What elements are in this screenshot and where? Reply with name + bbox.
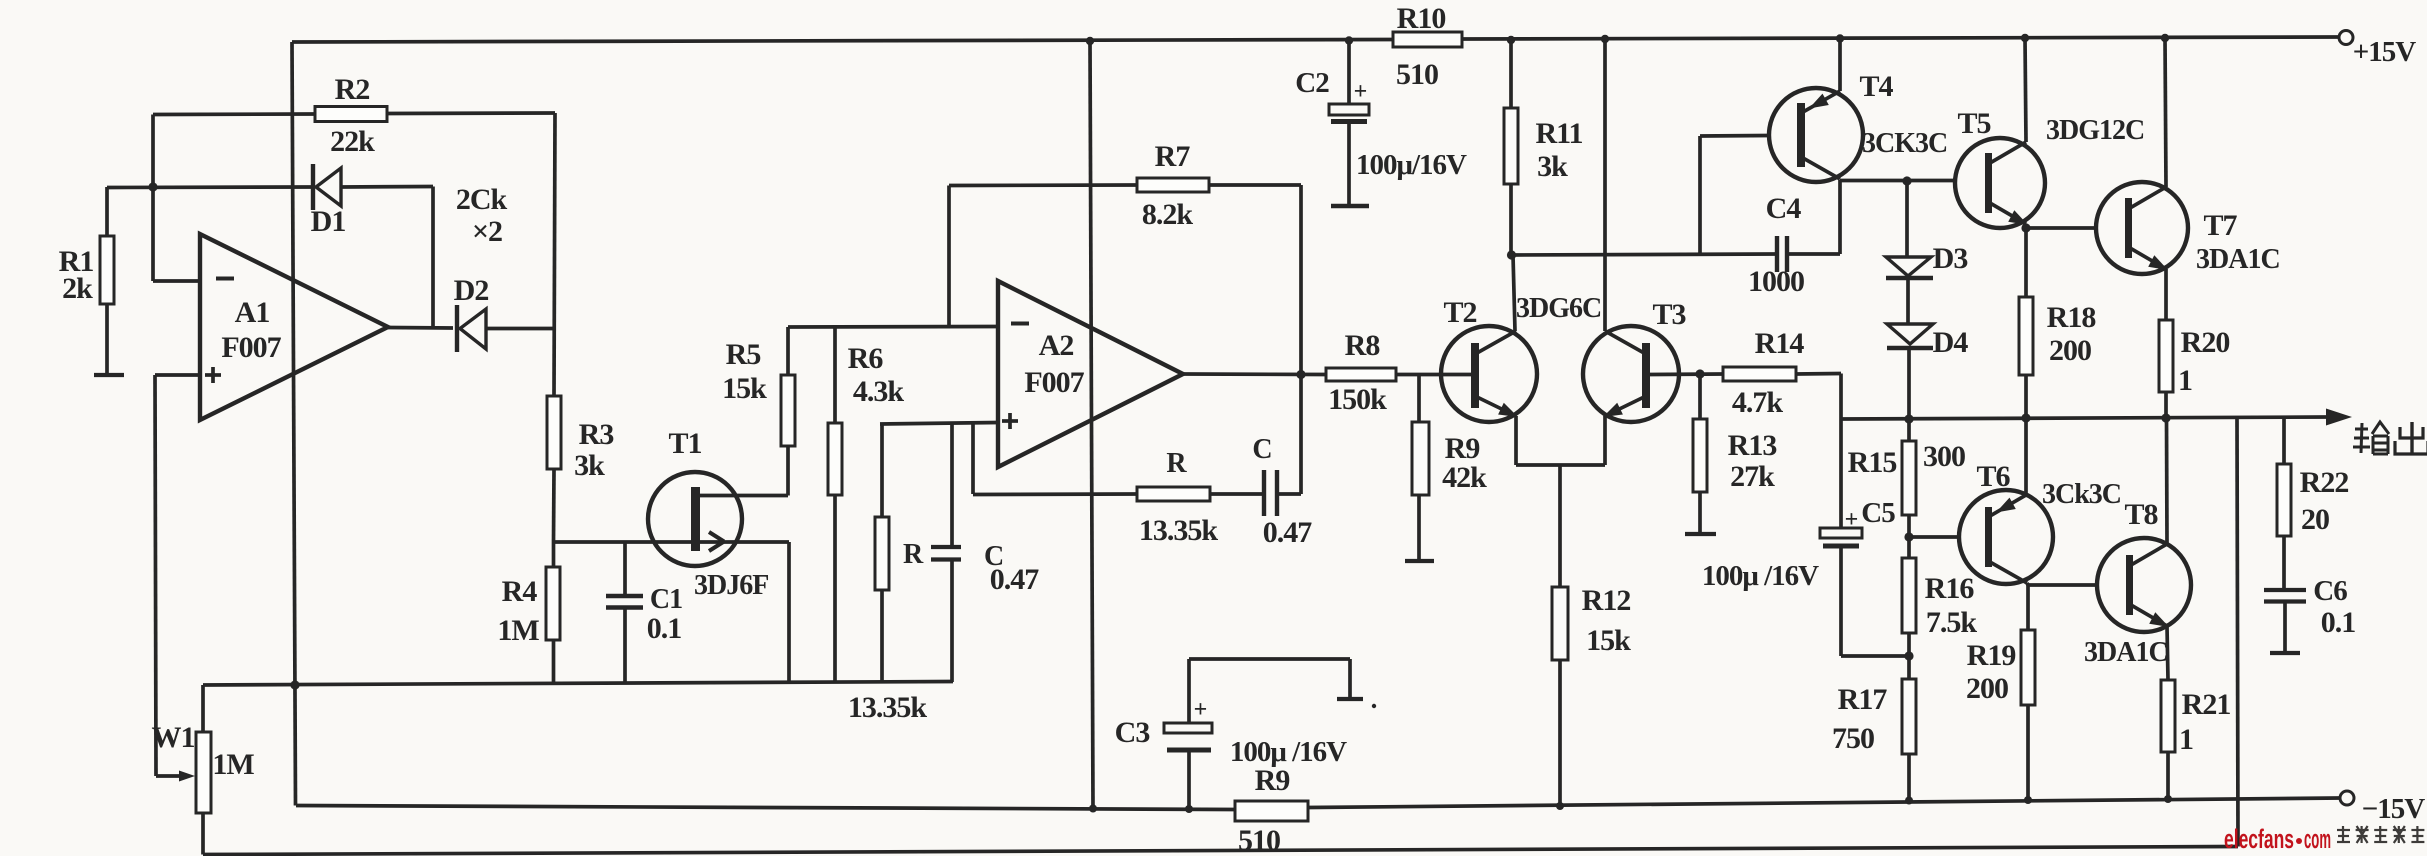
capacitor C6 xyxy=(2264,575,2355,652)
wire T3 collector xyxy=(1603,39,1607,331)
svg-text:T4: T4 xyxy=(1859,70,1893,103)
svg-text:R21: R21 xyxy=(2182,688,2231,721)
svg-text:R14: R14 xyxy=(1755,327,1805,360)
wire T7 emitter xyxy=(2164,269,2168,320)
svg-text:×2: ×2 xyxy=(472,215,502,248)
svg-text:R3: R3 xyxy=(579,418,614,451)
svg-text:T3: T3 xyxy=(1652,298,1685,331)
resistor R15 xyxy=(1848,419,1965,537)
op-amp A2 xyxy=(998,281,1183,467)
node D3 tap xyxy=(1902,176,1911,185)
svg-text:T7: T7 xyxy=(2203,209,2237,242)
svg-text:3DG12C: 3DG12C xyxy=(2046,115,2144,146)
ground C2 xyxy=(1331,204,1369,208)
resistor R feedback xyxy=(1137,448,1218,547)
capacitor C2 xyxy=(1295,41,1467,205)
resistor R4 xyxy=(497,542,560,685)
transistor T4 xyxy=(1769,70,1947,182)
svg-text:T5: T5 xyxy=(1957,107,1990,140)
watermark elecfans xyxy=(2224,824,2424,854)
svg-text:510: 510 xyxy=(1396,58,1438,91)
terminal -15V xyxy=(2340,791,2425,825)
transistor T3 xyxy=(1583,298,1686,422)
wire T5 collector xyxy=(2025,38,2026,142)
wire T6 base xyxy=(1909,535,1959,539)
resistor R2 xyxy=(315,73,387,158)
resistor R14 xyxy=(1723,327,1804,419)
svg-text:0.1: 0.1 xyxy=(2321,606,2356,639)
diode D3 xyxy=(1886,181,1967,278)
svg-text:15k: 15k xyxy=(722,372,767,405)
resistor R6 xyxy=(828,327,904,683)
capacitor C lower xyxy=(931,424,1039,682)
node T6 base xyxy=(1904,532,1913,541)
svg-text:R11: R11 xyxy=(1535,117,1582,150)
node A1 supply on RC bus xyxy=(290,680,299,689)
wire C4 right lead xyxy=(1787,180,1840,254)
svg-text:13.35k: 13.35k xyxy=(1139,514,1219,547)
wire T2 collector xyxy=(1513,255,1515,331)
wire A2 noninverting input xyxy=(880,423,998,495)
node R18 output rail xyxy=(2021,413,2030,422)
node R12 rail xyxy=(1556,802,1564,810)
node A2 output xyxy=(1296,370,1305,379)
transistor T5 xyxy=(1955,107,2144,228)
wire T2 collector bus xyxy=(1512,254,1778,255)
svg-text:42k: 42k xyxy=(1442,461,1487,494)
svg-text:750: 750 xyxy=(1832,722,1874,755)
svg-text:A1: A1 xyxy=(235,296,270,329)
svg-text:R20: R20 xyxy=(2181,326,2230,359)
resistor R20 xyxy=(2159,320,2229,418)
svg-text:C: C xyxy=(1252,434,1271,465)
ground C3 tie xyxy=(1337,699,1376,708)
wire T6 collector node xyxy=(2027,583,2097,630)
svg-text:3DG6C: 3DG6C xyxy=(1516,293,1601,324)
diode D1 xyxy=(311,164,346,238)
svg-text:100μ /16V: 100μ /16V xyxy=(1702,560,1819,592)
svg-text:20: 20 xyxy=(2301,503,2329,536)
resistor R8 xyxy=(1326,329,1396,416)
svg-text:2k: 2k xyxy=(62,272,93,305)
node C3 rail xyxy=(1185,805,1193,813)
resistor R21 xyxy=(2161,680,2230,799)
svg-text:3k: 3k xyxy=(1537,150,1568,183)
svg-text:D3: D3 xyxy=(1933,242,1968,275)
wire A1 output xyxy=(388,326,453,330)
svg-text:1: 1 xyxy=(2178,364,2192,397)
wire D1 net xyxy=(107,187,433,329)
potentiometer W1 xyxy=(152,685,255,855)
svg-text:3DA1C: 3DA1C xyxy=(2196,244,2280,275)
resistor R3 xyxy=(547,396,613,542)
wire emitter bus xyxy=(1516,465,1605,587)
svg-text:D4: D4 xyxy=(1933,326,1969,359)
svg-text:0.47: 0.47 xyxy=(990,563,1040,596)
wire R8 to T2 base xyxy=(1396,373,1471,377)
svg-text:2Ck: 2Ck xyxy=(456,183,508,216)
wire R2 right lead xyxy=(387,111,555,115)
svg-text:R13: R13 xyxy=(1728,429,1777,462)
svg-text:0.1: 0.1 xyxy=(647,612,682,645)
svg-text:3DJ6F: 3DJ6F xyxy=(694,570,768,601)
node A2 supply rail xyxy=(1089,805,1097,813)
svg-text:R8: R8 xyxy=(1345,329,1380,362)
svg-text:R9: R9 xyxy=(1255,764,1290,797)
wire T3 emitter xyxy=(1603,416,1607,465)
node R19 rail xyxy=(2024,796,2032,804)
wire T1 source drop xyxy=(787,542,791,683)
svg-text:F007: F007 xyxy=(1024,366,1084,399)
svg-text:R18: R18 xyxy=(2047,301,2096,334)
svg-text:27k: 27k xyxy=(1730,460,1775,493)
svg-text:100μ /16V: 100μ /16V xyxy=(1230,736,1347,768)
wire output rail xyxy=(1841,417,2330,419)
transistor T7 xyxy=(2096,182,2280,275)
svg-text:300: 300 xyxy=(1923,440,1965,473)
ground R1 xyxy=(94,373,124,377)
svg-text:1000: 1000 xyxy=(1748,265,1804,298)
node T2 collector xyxy=(1507,250,1516,259)
svg-text:200: 200 xyxy=(2049,334,2091,367)
wire R to C feedback xyxy=(1210,492,1263,496)
diode D2 xyxy=(454,274,489,352)
svg-text:T1: T1 xyxy=(668,427,701,460)
svg-text:R17: R17 xyxy=(1838,683,1888,716)
svg-text:C2: C2 xyxy=(1295,67,1329,99)
wire R5 to A2 inverting xyxy=(788,325,998,329)
svg-text:8.2k: 8.2k xyxy=(1142,198,1194,231)
wire D2 to node xyxy=(486,327,555,331)
wire T4 collector bus xyxy=(1840,179,1955,183)
wire feedback lower xyxy=(973,492,1137,496)
wire -15V rail right xyxy=(1308,798,2340,808)
svg-text:3DA1C: 3DA1C xyxy=(2084,637,2168,668)
wire -15V rail left xyxy=(296,806,1235,810)
svg-text:C6: C6 xyxy=(2313,575,2347,607)
svg-text:T6: T6 xyxy=(1976,460,2010,493)
wire +15V rail left segment xyxy=(292,40,1393,43)
node inverting input A1 xyxy=(148,182,157,191)
label 13.35k bus xyxy=(848,691,928,724)
svg-text:T2: T2 xyxy=(1443,296,1476,329)
resistor R17 xyxy=(1832,656,1916,801)
svg-text:C1: C1 xyxy=(650,584,682,615)
ground R13 xyxy=(1685,532,1716,536)
svg-text:3CK3C: 3CK3C xyxy=(1862,128,1947,159)
node T5 emitter xyxy=(2021,223,2030,232)
resistor R9 42k xyxy=(1412,375,1487,561)
svg-text:3Ck3C: 3Ck3C xyxy=(2042,479,2121,510)
node top rail at A2 supply xyxy=(1086,37,1094,45)
resistor R13 xyxy=(1693,374,1776,534)
svg-text:13.35k: 13.35k xyxy=(848,691,928,724)
node T7 rail xyxy=(2161,34,2169,42)
wire T5 emitter node xyxy=(2026,224,2096,297)
svg-text:R2: R2 xyxy=(335,73,370,106)
wire T1 gate net xyxy=(554,540,790,544)
svg-text:com: com xyxy=(2304,824,2331,854)
resistor R10 xyxy=(1393,2,1462,91)
resistor R11 xyxy=(1504,40,1583,255)
svg-text:C4: C4 xyxy=(1766,192,1802,225)
node R21 rail xyxy=(2164,795,2172,803)
capacitor C3 xyxy=(1115,659,1350,809)
wire T4 emitter xyxy=(1838,39,1842,92)
wire T4 base riser xyxy=(1700,136,1769,256)
wire A2 supply vertical xyxy=(1090,41,1093,809)
wire W1 wiper arm xyxy=(156,771,195,782)
ground C6 xyxy=(2270,651,2300,655)
resistor R18 xyxy=(2019,297,2095,418)
svg-text:R: R xyxy=(1166,448,1187,479)
capacitor C1 xyxy=(606,542,682,685)
label output shuchu xyxy=(2353,422,2427,454)
svg-text:4.7k: 4.7k xyxy=(1732,386,1784,419)
op-amp A1 xyxy=(200,234,388,420)
transistor T2 xyxy=(1441,293,1601,422)
svg-text:15k: 15k xyxy=(1586,624,1631,657)
svg-text:C3: C3 xyxy=(1115,716,1150,749)
svg-text:0.47: 0.47 xyxy=(1263,516,1313,549)
capacitor C feedback xyxy=(1252,434,1312,549)
wire R14 to output rail xyxy=(1796,374,1841,420)
wire A2 output xyxy=(1183,372,1326,376)
wire right branch vertical xyxy=(554,113,555,396)
node R20 output rail xyxy=(2161,413,2170,422)
resistor R19 xyxy=(1966,630,2035,800)
transistor T6 xyxy=(1959,460,2121,584)
transistor T8 xyxy=(2084,498,2191,668)
label 2Ck x2 xyxy=(456,183,508,248)
svg-text:D2: D2 xyxy=(454,274,489,307)
ground R9 xyxy=(1405,559,1434,563)
resistor R lower xyxy=(875,424,924,682)
terminal +15V xyxy=(2339,31,2416,69)
svg-text:elecfans: elecfans xyxy=(2224,824,2294,854)
svg-text:R5: R5 xyxy=(726,338,761,371)
wire R7 tap vertical xyxy=(947,186,951,327)
svg-text:A2: A2 xyxy=(1039,329,1074,362)
node D4 output rail xyxy=(1904,414,1913,423)
svg-text:200: 200 xyxy=(1966,672,2008,705)
svg-text:C5: C5 xyxy=(1861,497,1895,529)
svg-text:R: R xyxy=(903,539,924,570)
resistor R22 xyxy=(2277,418,2348,590)
svg-text:T8: T8 xyxy=(2124,498,2157,531)
svg-text:W1: W1 xyxy=(152,721,195,754)
wire bottom RC bus xyxy=(203,682,953,686)
svg-text:+15V: +15V xyxy=(2353,36,2417,68)
svg-text:R12: R12 xyxy=(1582,584,1631,617)
svg-text:R16: R16 xyxy=(1925,572,1975,605)
svg-text:1: 1 xyxy=(2179,723,2193,756)
node R17 rail xyxy=(1905,797,1913,805)
svg-text:100μ/16V: 100μ/16V xyxy=(1356,149,1467,181)
svg-text:R7: R7 xyxy=(1155,140,1191,173)
node R16 R17 C5 xyxy=(1904,651,1913,660)
svg-text:1M: 1M xyxy=(212,748,254,781)
node T4 rail xyxy=(1836,34,1844,42)
wire T8 collector xyxy=(2165,418,2169,544)
resistor R1 xyxy=(59,187,114,375)
resistor R7 xyxy=(1137,140,1209,231)
svg-text:3k: 3k xyxy=(574,449,605,482)
svg-text:22k: 22k xyxy=(330,125,375,158)
resistor R12 xyxy=(1552,584,1631,806)
node T3 rail xyxy=(1601,35,1609,43)
node C2 rail xyxy=(1345,36,1353,44)
svg-text:R6: R6 xyxy=(848,342,884,375)
wire C feedback to output node xyxy=(1277,374,1301,494)
svg-text:R4: R4 xyxy=(502,575,538,608)
svg-text:R15: R15 xyxy=(1848,446,1897,479)
node R13 tap xyxy=(1695,369,1704,378)
svg-text:F007: F007 xyxy=(221,331,281,364)
wire A1 supply vertical xyxy=(292,42,296,806)
svg-text:150k: 150k xyxy=(1328,383,1387,416)
svg-text:R22: R22 xyxy=(2300,466,2349,499)
svg-text:+: + xyxy=(1845,507,1858,533)
node T5 rail xyxy=(2021,34,2029,42)
svg-text:+: + xyxy=(1354,79,1367,105)
svg-text:−15V: −15V xyxy=(2362,793,2426,825)
wire A1 inverting input xyxy=(153,279,200,283)
wire T6 emitter xyxy=(2024,418,2028,495)
svg-text:+: + xyxy=(1194,697,1207,723)
svg-text:7.5k: 7.5k xyxy=(1926,606,1978,639)
wire T8 emitter xyxy=(2167,626,2168,680)
node R11 rail xyxy=(1507,36,1515,44)
wire T2 emitter xyxy=(1514,416,1518,465)
resistor R16 xyxy=(1902,537,1977,656)
arrow output xyxy=(2326,409,2352,426)
svg-text:R19: R19 xyxy=(1967,639,2016,672)
wire R7 left lead xyxy=(949,183,1137,187)
wire T7 collector xyxy=(2165,38,2166,187)
capacitor C4 xyxy=(1748,192,1804,298)
resistor R5 xyxy=(722,327,795,496)
transistor T1 xyxy=(648,427,788,601)
wire A1 noninverting input xyxy=(155,375,200,776)
wire R2 left lead xyxy=(153,114,315,281)
wire output return bottom xyxy=(203,417,2238,855)
svg-text:D1: D1 xyxy=(311,205,346,238)
svg-text:R10: R10 xyxy=(1397,2,1446,35)
svg-text:1M: 1M xyxy=(497,614,539,647)
wire +15V rail right segment xyxy=(1462,37,2339,39)
resistor R9 510 xyxy=(1235,764,1308,856)
diode D4 xyxy=(1887,278,1968,419)
wire R7 right lead xyxy=(1209,185,1301,374)
wire T3 base xyxy=(1650,372,1723,376)
svg-text:4.3k: 4.3k xyxy=(853,375,905,408)
capacitor C5 xyxy=(1702,419,1909,656)
